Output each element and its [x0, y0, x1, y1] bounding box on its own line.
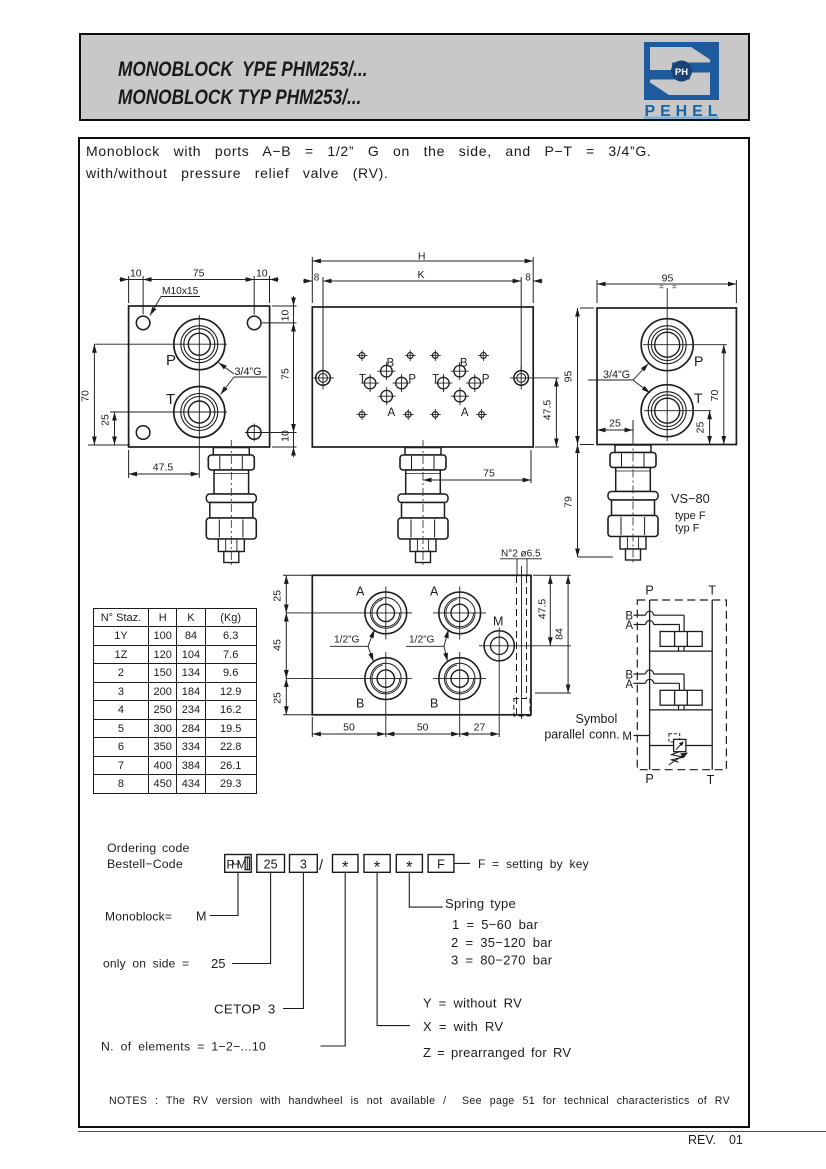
svg-text:T: T — [708, 584, 716, 598]
leader star3 to Spring type — [409, 872, 552, 967]
svg-text:F: F — [437, 858, 445, 872]
svg-text:Y = without RV: Y = without RV — [423, 996, 522, 1011]
svg-text:M: M — [493, 615, 503, 629]
svg-text:2 = 35−120 bar: 2 = 35−120 bar — [451, 935, 553, 950]
dim 10-75-10 right of left view — [262, 296, 297, 457]
front view body — [312, 307, 533, 447]
svg-text:45: 45 — [272, 639, 284, 651]
dim 25 horizontal right view — [597, 420, 633, 445]
svg-text:1/2”G: 1/2”G — [409, 635, 435, 646]
svg-text:/: / — [319, 858, 324, 874]
svg-text:70: 70 — [80, 390, 92, 402]
code box PHM — [225, 855, 252, 873]
svg-text:P: P — [166, 352, 176, 369]
port P right view — [641, 319, 693, 371]
svg-text:only on side =: only on side = — [103, 957, 189, 971]
dim 84 right of bottom view — [535, 575, 571, 693]
svg-text:T: T — [432, 374, 439, 386]
svg-text:parallel conn.: parallel conn. — [544, 728, 619, 742]
header title line 1 — [118, 59, 367, 80]
leader star2 to X option — [377, 872, 571, 1060]
svg-text:25: 25 — [264, 858, 278, 872]
svg-text:typ F: typ F — [675, 523, 700, 535]
relief valve pilot dashed box — [669, 734, 680, 742]
svg-text:47.5: 47.5 — [537, 599, 549, 620]
port M line — [634, 735, 650, 737]
svg-text:T: T — [707, 773, 715, 787]
svg-text:A: A — [625, 620, 633, 632]
svg-text:PHM: PHM — [227, 858, 247, 872]
spool valve section 1 — [660, 632, 702, 647]
svg-text:N. of elements = 1−2−...10: N. of elements = 1−2−...10 — [101, 1040, 266, 1054]
code box star 1 — [333, 855, 359, 877]
leader 3 to CETOP — [214, 872, 303, 1016]
label 1/2"G second with leaders — [406, 630, 449, 662]
svg-text:25: 25 — [695, 422, 707, 434]
port centerlines left view — [94, 315, 227, 478]
svg-text:8: 8 — [314, 273, 320, 284]
port T left view — [174, 387, 225, 438]
svg-text:3 = 80−270 bar: 3 = 80−270 bar — [451, 953, 553, 968]
svg-text:3/4”G: 3/4”G — [235, 366, 262, 378]
svg-text:CETOP 3: CETOP 3 — [214, 1002, 276, 1017]
leader 25 to only on side — [103, 872, 271, 971]
header title line 2 — [118, 87, 361, 108]
CETOP3 interface pattern 2 — [430, 350, 490, 420]
svg-text:T: T — [359, 374, 366, 386]
svg-text:Ordering code: Ordering code — [107, 841, 190, 855]
spool valve section 2 — [660, 690, 702, 705]
dim 79 left of valve — [578, 445, 614, 558]
section 2 port B line — [634, 670, 685, 690]
svg-text:A: A — [625, 679, 633, 691]
label N°2 6.5 with leaders — [500, 549, 542, 577]
dim 95 left of right view — [578, 308, 595, 445]
code box star 3 — [396, 855, 422, 877]
svg-text:Spring type: Spring type — [445, 896, 516, 911]
bottom view body — [312, 575, 531, 715]
port A1 — [286, 587, 412, 640]
svg-text:1/2”G: 1/2”G — [334, 635, 360, 646]
hidden hole lines — [514, 566, 530, 719]
svg-text:B: B — [430, 697, 438, 711]
dim 25 left of left view — [114, 412, 116, 445]
svg-text:type F: type F — [675, 510, 706, 522]
section 1 port A line — [634, 621, 680, 632]
port B2 — [433, 652, 486, 737]
mounting hole left — [314, 367, 335, 390]
port centerlines right view — [643, 288, 727, 441]
svg-text:79: 79 — [563, 496, 575, 508]
leader PHM to Monoblock — [105, 872, 238, 923]
svg-text:47.5: 47.5 — [542, 400, 554, 421]
mounting hole right — [510, 367, 559, 390]
port T right view — [641, 385, 693, 437]
bolt hole top-right — [247, 316, 261, 330]
svg-text:27: 27 — [474, 722, 486, 734]
svg-text:Bestell−Code: Bestell−Code — [107, 857, 183, 871]
port P left view — [174, 319, 225, 370]
svg-text:25: 25 — [272, 692, 284, 704]
svg-text:10: 10 — [256, 268, 268, 280]
section 2 return links — [650, 705, 713, 710]
svg-text:25: 25 — [100, 414, 112, 426]
header box — [79, 33, 750, 121]
svg-text:T: T — [694, 390, 703, 406]
dim 25-45-25 left of bottom view — [283, 575, 313, 715]
svg-text:95: 95 — [563, 371, 575, 383]
dim 25 vertical right view — [709, 411, 711, 445]
svg-text:70: 70 — [709, 390, 721, 402]
svg-text:25: 25 — [211, 956, 225, 971]
svg-text:Symbol: Symbol — [576, 712, 618, 726]
svg-text:3/4”G: 3/4”G — [603, 369, 630, 381]
svg-text:Z = prearranged for RV: Z = prearranged for RV — [423, 1045, 571, 1060]
svg-text:T: T — [166, 391, 175, 408]
svg-text:10: 10 — [280, 430, 292, 442]
relief valve spring — [669, 752, 687, 765]
leader star1 to N. of elements — [101, 872, 345, 1053]
svg-text:47.5: 47.5 — [153, 462, 174, 474]
port M — [479, 628, 571, 738]
footer rule — [78, 1131, 826, 1132]
label 3/4"G left view with leaders — [219, 363, 268, 395]
svg-text:Monoblock=: Monoblock= — [105, 910, 172, 924]
svg-text:F = setting by key: F = setting by key — [478, 857, 589, 871]
net P line — [649, 600, 651, 770]
label 3/4"G right view with leaders — [588, 364, 650, 394]
svg-text:A: A — [430, 585, 439, 599]
svg-text:1 = 5−60 bar: 1 = 5−60 bar — [452, 917, 539, 932]
svg-text:M10x15: M10x15 — [162, 286, 199, 297]
svg-text:B: B — [356, 697, 364, 711]
dim 50-50-27 below bottom view — [312, 717, 499, 737]
svg-text:A: A — [388, 407, 396, 419]
description text — [86, 141, 652, 184]
PEHEL logo — [644, 42, 719, 119]
svg-text:A: A — [461, 407, 469, 419]
dim 47.5 right of front view — [535, 378, 559, 447]
svg-text:50: 50 — [343, 722, 355, 734]
main frame — [78, 137, 750, 1128]
relief valve under right view — [608, 438, 658, 566]
relief valve under front view — [398, 440, 448, 568]
svg-text:X = with RV: X = with RV — [423, 1019, 503, 1034]
section 1 return links — [650, 646, 713, 651]
code box F — [428, 855, 454, 873]
dim 70 left of left view — [88, 344, 130, 445]
svg-text:B: B — [460, 358, 468, 370]
dim 10-75-10 top of left view — [120, 276, 279, 315]
code box 25 — [257, 855, 285, 873]
notes line — [109, 1095, 730, 1107]
svg-text:P: P — [408, 374, 416, 386]
CETOP3 interface pattern 1 — [357, 350, 417, 420]
svg-text:50: 50 — [417, 722, 429, 734]
symbol enclosure dashed — [637, 600, 726, 770]
svg-text:M: M — [622, 731, 632, 743]
right side view plate — [597, 308, 736, 445]
svg-text:=: = — [672, 283, 677, 292]
label M10x15 with leader — [150, 286, 200, 316]
svg-text:B: B — [387, 358, 395, 370]
svg-text:=: = — [659, 283, 664, 292]
size table — [93, 608, 257, 794]
relief valve RV box — [650, 739, 713, 751]
port A2 — [433, 587, 486, 640]
net T line — [711, 600, 713, 770]
bolt hole bottom-left — [136, 426, 150, 440]
svg-text:VS−80: VS−80 — [671, 491, 710, 506]
svg-text:P: P — [645, 584, 653, 598]
svg-text:84: 84 — [554, 628, 566, 640]
dim 75 below front view — [423, 450, 531, 483]
bolt hole top-left — [136, 316, 150, 330]
section 1 port B line — [634, 611, 685, 631]
section 2 port A line — [634, 679, 680, 690]
left side view plate — [129, 306, 270, 447]
dim 70 right view — [723, 345, 725, 445]
svg-text:8: 8 — [525, 273, 531, 284]
svg-text:H: H — [418, 250, 426, 262]
svg-text:25: 25 — [272, 590, 284, 602]
svg-text:75: 75 — [280, 368, 292, 380]
dim 47.5 bottom of left view — [129, 450, 200, 478]
revision label — [688, 1133, 743, 1147]
svg-text:25: 25 — [609, 418, 621, 430]
code box 3 — [290, 855, 318, 873]
dim 95 top of right view — [597, 280, 736, 303]
svg-text:K: K — [417, 269, 424, 281]
dim 47.5 right of bottom view — [533, 575, 571, 646]
svg-text:75: 75 — [483, 468, 495, 480]
svg-text:P: P — [694, 353, 703, 369]
svg-text:A: A — [356, 585, 365, 599]
svg-text:75: 75 — [193, 268, 205, 280]
label 1/2"G first with leaders — [330, 630, 375, 662]
svg-text:P: P — [482, 374, 490, 386]
F legend — [454, 857, 589, 871]
svg-text:N°2 ø6.5: N°2 ø6.5 — [501, 549, 541, 560]
code box star 2 — [364, 855, 390, 877]
svg-text:M: M — [196, 910, 206, 924]
port B1 — [286, 652, 412, 737]
relief valve under left view — [206, 440, 256, 568]
svg-text:P: P — [645, 772, 653, 786]
dim H top — [312, 257, 533, 303]
svg-text:10: 10 — [280, 310, 292, 322]
bolt hole bottom-right — [245, 424, 264, 442]
dim K with 8-8 — [303, 277, 543, 370]
svg-text:10: 10 — [130, 268, 142, 280]
svg-text:3: 3 — [300, 858, 307, 872]
